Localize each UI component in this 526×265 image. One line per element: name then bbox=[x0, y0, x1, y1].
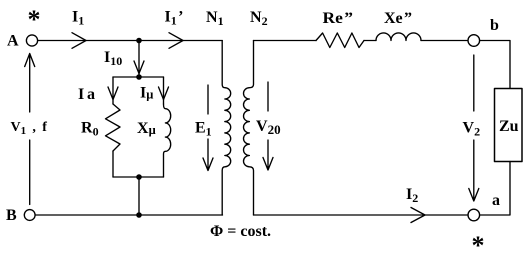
junction dot bottom rail bbox=[136, 212, 142, 218]
svg-text:E1: E1 bbox=[195, 120, 212, 139]
svg-text:*: * bbox=[472, 231, 485, 260]
svg-text:b: b bbox=[490, 17, 499, 34]
wire shunt to bottom rail bbox=[138, 177, 140, 215]
wire Re'' to Xe'' bbox=[364, 40, 376, 42]
wire A to junction (top rail primary) bbox=[38, 40, 222, 42]
bottom rail primary bbox=[35, 214, 222, 216]
svg-text:I1: I1 bbox=[72, 9, 84, 28]
svg-text:A: A bbox=[7, 33, 19, 50]
svg-text:Iμ: Iμ bbox=[140, 85, 153, 102]
top rail secondary (left part) bbox=[254, 40, 317, 42]
arrow V20 bbox=[263, 82, 273, 170]
wire left shunt branch top bbox=[112, 77, 114, 104]
terminal A bbox=[26, 35, 37, 46]
terminal B bbox=[24, 210, 35, 221]
current arrow I1 bbox=[72, 33, 86, 49]
shunt bottom rail bbox=[113, 176, 164, 178]
junction dot (shunt top) bbox=[136, 74, 142, 80]
terminal a bbox=[468, 209, 480, 221]
svg-text:N2: N2 bbox=[250, 9, 268, 28]
svg-text:N1: N1 bbox=[206, 9, 224, 28]
svg-text:V1 , f: V1 , f bbox=[11, 120, 48, 137]
bottom rail secondary bbox=[254, 214, 469, 216]
svg-text:I10: I10 bbox=[104, 49, 122, 68]
transformer secondary winding N2 bbox=[244, 41, 254, 216]
svg-text:Zu: Zu bbox=[499, 118, 519, 135]
svg-text:Re ”: Re ” bbox=[323, 10, 354, 27]
arrowhead Imu bbox=[159, 87, 169, 100]
svg-text:a: a bbox=[492, 192, 500, 209]
inductor Xmu coil bbox=[164, 104, 171, 177]
svg-text:V20: V20 bbox=[256, 118, 281, 137]
resistor Re'' zigzag bbox=[316, 33, 364, 48]
arrow V1 (pointing up) bbox=[25, 54, 35, 205]
junction dot (shunt bottom) bbox=[136, 174, 142, 180]
svg-text:Φ = cost.: Φ = cost. bbox=[210, 223, 271, 240]
junction dot top bbox=[136, 38, 142, 44]
arrowhead I10 bbox=[134, 61, 144, 74]
svg-text:Xe ”: Xe ” bbox=[384, 10, 412, 27]
inductor Xe'' coil bbox=[376, 33, 421, 41]
wire junction down (I10 branch) bbox=[138, 41, 140, 78]
current arrow I2 bbox=[411, 208, 425, 223]
wire b to load corner bbox=[480, 41, 510, 89]
load Zu box bbox=[495, 89, 523, 162]
svg-text:R0: R0 bbox=[81, 120, 99, 139]
wire Xe'' to terminal b bbox=[421, 40, 468, 42]
svg-text:Xμ: Xμ bbox=[137, 120, 156, 137]
wire left shunt branch bottom bbox=[112, 151, 114, 177]
arrowhead Ia bbox=[108, 87, 118, 100]
shunt top rail bbox=[113, 76, 164, 78]
terminal b bbox=[468, 35, 480, 47]
current arrow I1' bbox=[169, 33, 183, 49]
svg-text:I a: I a bbox=[78, 86, 95, 103]
svg-text:I1 ’: I1 ’ bbox=[165, 9, 184, 28]
arrow E1 bbox=[203, 85, 213, 171]
svg-text:I2: I2 bbox=[406, 186, 418, 205]
wire load to bottom corner bbox=[480, 162, 510, 216]
svg-text:V2: V2 bbox=[463, 120, 481, 139]
arrow V2 bbox=[469, 55, 479, 201]
wire right shunt branch top bbox=[163, 77, 165, 104]
svg-text:*: * bbox=[28, 5, 41, 34]
svg-text:B: B bbox=[6, 207, 17, 224]
transformer primary winding N1 bbox=[222, 41, 231, 216]
resistor R0 zigzag bbox=[106, 104, 121, 151]
